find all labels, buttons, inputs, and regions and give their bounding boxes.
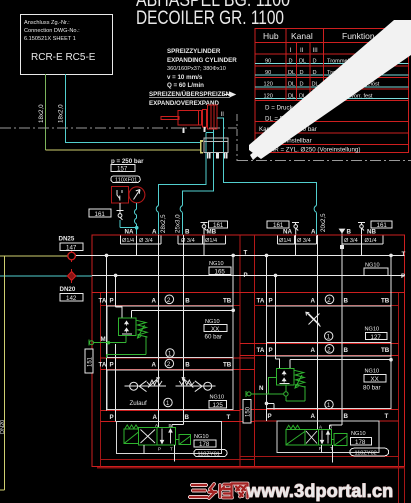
directional valve box X right-block <box>305 429 319 445</box>
box XX right <box>364 374 386 382</box>
module rect left S3 <box>107 306 233 358</box>
box 142 <box>60 294 83 302</box>
table subcolumn lines <box>297 43 311 101</box>
PART1: titles and top-left box <box>0 0 411 161</box>
plug triangle port B right <box>339 229 346 234</box>
svg-text:TB: TB <box>223 298 232 305</box>
svg-text:Ø1/4: Ø1/4 <box>365 238 377 244</box>
red divider top of blocks <box>92 292 405 294</box>
wire cyan test point to NA junction <box>120 220 137 228</box>
directional valve solenoid right <box>179 435 191 445</box>
svg-text:B: B <box>185 298 190 305</box>
relief adjust arrow right <box>295 375 302 388</box>
svg-text:Ø 3/4: Ø 3/4 <box>139 238 153 244</box>
wire yellow supply segment to coupling <box>46 149 201 151</box>
svg-text:161: 161 <box>95 211 106 218</box>
svg-text:B: B <box>347 229 352 236</box>
svg-text:T: T <box>385 413 389 420</box>
stripe tip fragment <box>250 150 259 160</box>
check valve B ball <box>204 382 212 390</box>
svg-text:127: 127 <box>371 334 382 341</box>
svg-text:p = 250 bar: p = 250 bar <box>111 158 144 165</box>
flow control valve X <box>309 314 320 325</box>
svg-text:A: A <box>311 347 316 354</box>
svg-text:110XF01: 110XF01 <box>115 178 137 184</box>
svg-text:B: B <box>344 413 349 420</box>
red inner bottom left <box>101 459 255 461</box>
wire P left vertical lower <box>115 344 117 422</box>
svg-text:DN25: DN25 <box>59 236 75 243</box>
svg-text:Zulauf: Zulauf <box>130 400 147 407</box>
wire P tap to relief right <box>276 359 280 369</box>
directional valve spring top <box>125 425 138 429</box>
svg-text:Ø1/4: Ø1/4 <box>122 238 134 244</box>
svg-text:P: P <box>110 298 114 305</box>
svg-text:A: A <box>155 423 158 428</box>
cylinder piston line <box>198 110 200 125</box>
shutoff valve red on DN25 <box>68 252 76 260</box>
svg-text:DN20: DN20 <box>0 420 6 434</box>
module rect right S4 <box>267 356 392 409</box>
svg-text:28x2,5: 28x2,5 <box>160 214 167 233</box>
svg-text:P: P <box>269 347 273 354</box>
box empty right <box>364 268 388 276</box>
svg-text:B: B <box>185 414 190 421</box>
wire MB drain to T <box>203 235 205 255</box>
connection info box <box>21 15 113 75</box>
svg-text:157: 157 <box>117 166 128 173</box>
svg-text:110ZY01: 110ZY01 <box>198 452 220 458</box>
svg-text:B: B <box>344 347 349 354</box>
relief valve spring <box>137 320 148 337</box>
gauge needle <box>134 190 141 200</box>
red dividers left middle row <box>101 358 255 370</box>
wire T line <box>76 254 405 256</box>
node T-TA left <box>105 254 109 258</box>
relief adjust arrow <box>138 325 145 338</box>
svg-text:T: T <box>244 249 248 256</box>
white diagonal stripe artifact <box>249 20 411 159</box>
svg-text:RCR-E RC5-E: RCR-E RC5-E <box>31 52 96 63</box>
wire B left vertical <box>172 235 184 428</box>
pressure gauge circle <box>129 187 145 203</box>
svg-text:DL: DL <box>288 82 295 88</box>
check valve A spring <box>147 380 162 385</box>
wire relief drain green <box>285 385 287 392</box>
manifold outer red frame <box>92 235 405 467</box>
check valve B spring <box>179 380 194 385</box>
pressure switch square gauge <box>112 187 129 203</box>
svg-text:III: III <box>313 47 318 54</box>
relief valve body right <box>276 369 293 386</box>
svg-text:Ø1/4: Ø1/4 <box>279 238 291 244</box>
node T-TB right <box>389 254 393 258</box>
box 165 <box>209 267 231 275</box>
svg-text:P: P <box>268 413 272 420</box>
svg-text:TB: TB <box>381 298 390 305</box>
red divider right label row bottom <box>255 305 399 307</box>
svg-text:EXPANDING CYLINDER: EXPANDING CYLINDER <box>167 57 237 64</box>
svg-text:NA: NA <box>125 229 134 236</box>
svg-text:B: B <box>185 362 190 369</box>
node circled 1 left S4 <box>164 398 172 406</box>
svg-text:161: 161 <box>377 222 388 229</box>
red inner border left <box>100 293 102 467</box>
cylinder head bar <box>203 109 207 127</box>
svg-text:80 bar: 80 bar <box>363 385 381 392</box>
svg-text:A: A <box>153 414 158 421</box>
PART3: cylinder and piping <box>149 48 327 235</box>
wire NB right drain to T <box>361 235 363 255</box>
box 157 <box>111 165 135 172</box>
svg-text:20x2,5: 20x2,5 <box>320 213 327 232</box>
table outer border <box>255 29 409 153</box>
cylinder rod <box>161 116 179 119</box>
hatch pair 1 <box>208 153 210 159</box>
svg-text:NB: NB <box>367 229 376 236</box>
svg-text:DN20: DN20 <box>60 286 76 293</box>
wire T drain long <box>173 445 175 461</box>
PART6: left block internals <box>94 307 236 461</box>
node circled 1 right S3 <box>325 332 333 340</box>
wire cyan NA gauge line <box>136 203 138 235</box>
PART4: gauges and port heads <box>89 158 392 249</box>
coupling block grey <box>204 138 228 153</box>
svg-text:A: A <box>311 413 316 420</box>
port size cells left pair1 <box>121 235 162 244</box>
circled 2 right row1 <box>325 295 334 304</box>
relief valve spring right <box>294 370 305 387</box>
node B dot <box>340 245 344 249</box>
red dividers left bottom row <box>101 411 255 422</box>
svg-text:EXPAND/OVEREXPAND: EXPAND/OVEREXPAND <box>149 100 219 107</box>
table row underlines cyan <box>255 64 409 99</box>
oval 110ZY02 <box>350 448 389 456</box>
directional valve box X <box>139 428 158 446</box>
node cyan dot NA <box>135 226 139 230</box>
wire relief tank tap to TB <box>132 310 234 318</box>
check valve A seat <box>139 381 146 392</box>
wire cyan to right block <box>217 118 316 235</box>
box 161 left <box>89 209 111 217</box>
box 147 <box>60 243 83 251</box>
wire A right vertical <box>317 235 319 429</box>
wire B plug stem <box>341 234 343 247</box>
svg-text:I: I <box>290 47 292 54</box>
node TA right dot <box>265 402 269 406</box>
cylinder body <box>178 110 202 125</box>
svg-text:P: P <box>269 298 273 305</box>
svg-text:NG10: NG10 <box>210 395 225 401</box>
module rect right S5 <box>277 421 379 453</box>
box XX left <box>204 325 227 332</box>
relief valve arrows <box>125 321 129 333</box>
relief valve body left <box>119 318 136 335</box>
svg-text:90: 90 <box>265 70 271 76</box>
box 178 <box>194 440 216 447</box>
svg-text:Kanal: Kanal <box>291 31 313 41</box>
svg-text:NG10: NG10 <box>365 327 380 333</box>
box 151 vertical <box>85 349 93 373</box>
red inner bottom right <box>240 456 399 458</box>
svg-text:D: D <box>313 59 317 65</box>
svg-text:BAR = ZYL. Ø250 (Voreinstellun: BAR = ZYL. Ø250 (Voreinstellung) <box>266 146 360 153</box>
svg-text:SPREIZEN/ÜBERSPREIZEN: SPREIZEN/ÜBERSPREIZEN <box>149 91 231 98</box>
relief valve arrows right <box>282 371 286 383</box>
svg-text:A: A <box>311 229 316 236</box>
svg-text:Connection DWG-No.:: Connection DWG-No.: <box>24 28 80 34</box>
directional valve solenoid right right-block <box>334 434 347 446</box>
svg-text:MB: MB <box>207 229 217 236</box>
red dividers right middle row <box>240 344 399 356</box>
red bottom double line <box>97 467 405 469</box>
svg-text:NG10: NG10 <box>365 369 380 375</box>
wire TA right vertical <box>266 255 268 421</box>
wire TA left vertical <box>106 255 108 410</box>
svg-text:Ø1/4: Ø1/4 <box>205 238 217 244</box>
svg-text:110ZY02: 110ZY02 <box>355 451 377 457</box>
check valve A pilot arrow <box>148 377 159 387</box>
node P left <box>114 274 118 278</box>
wire TB left vertical <box>232 255 234 410</box>
svg-text:N: N <box>259 385 264 392</box>
port size cells right pair1 <box>278 235 317 244</box>
hatch pair 2 <box>217 153 219 159</box>
wire NA right drain to T <box>295 235 297 255</box>
oval 110XF01 <box>111 176 141 183</box>
svg-text:TB: TB <box>223 362 232 369</box>
table column lines <box>286 29 324 101</box>
box 178 right <box>350 438 371 446</box>
test point MB <box>201 223 208 225</box>
svg-text:TB: TB <box>381 347 390 354</box>
svg-text:147: 147 <box>66 245 77 252</box>
red right border extension <box>404 467 406 503</box>
cylinder head block <box>208 105 217 129</box>
red gap border right <box>254 235 256 467</box>
check valve B seat <box>195 381 202 392</box>
box 161 MB <box>209 221 228 228</box>
check valve A flow line <box>125 385 166 387</box>
svg-text:D: D <box>300 82 304 88</box>
svg-text:DL: DL <box>288 70 295 76</box>
svg-text:P: P <box>244 272 248 279</box>
wire TB right vertical <box>390 255 392 408</box>
svg-text:DL: DL <box>299 59 306 65</box>
PART5: manifold structure <box>0 235 406 503</box>
node circled 1 left S3 <box>166 349 174 357</box>
svg-text:DL: DL <box>288 93 295 99</box>
svg-text:TA: TA <box>99 298 107 305</box>
node tap TB dot <box>231 309 235 313</box>
PART2: table <box>255 29 409 154</box>
wire yellow DN25 from left <box>0 255 68 257</box>
test point right NB <box>358 223 365 225</box>
centerline dash-dot horizontal <box>0 127 237 129</box>
red inner border right <box>398 293 400 503</box>
svg-text:Hub: Hub <box>263 31 279 41</box>
node circled 1 right S4 <box>325 400 333 408</box>
tick I left <box>183 127 185 133</box>
wire green pipe from RCR-E down <box>45 74 47 150</box>
svg-text:151: 151 <box>88 356 94 367</box>
port size cells left pair2 <box>178 235 226 244</box>
svg-text:Ø 3/4: Ø 3/4 <box>297 238 311 244</box>
svg-text:B: B <box>185 229 190 236</box>
node T-TA right <box>265 254 269 258</box>
check valve B pilot arrow <box>182 377 193 387</box>
svg-text:D: D <box>313 70 317 76</box>
directional valve spring top right-block <box>287 425 300 429</box>
wire N coupling line green <box>251 393 284 395</box>
wire cyan pipe from RC5-E down <box>66 74 201 142</box>
svg-text:165: 165 <box>215 269 226 276</box>
wire cyan B from cylinder <box>182 129 213 235</box>
arrow right of SPREIZEN <box>224 92 235 96</box>
svg-text:120: 120 <box>264 82 273 88</box>
svg-text:T: T <box>402 251 406 258</box>
svg-text:178: 178 <box>355 439 366 446</box>
svg-text:360/160Px37; 380Φx10: 360/160Px37; 380Φx10 <box>167 66 226 72</box>
red divider left label row bottom <box>101 305 241 307</box>
node T-TB left <box>231 254 235 258</box>
svg-text:NG10: NG10 <box>209 261 224 267</box>
svg-text:TA: TA <box>99 362 107 369</box>
module rect left S4 <box>107 370 233 410</box>
wire spring drain green <box>106 336 146 358</box>
wire P right vertical <box>275 275 277 359</box>
svg-text:T: T <box>227 414 231 421</box>
wire TA right jog <box>267 403 275 409</box>
svg-text:6.150521X SHEET 1: 6.150521X SHEET 1 <box>24 36 76 42</box>
svg-text:18x2,0: 18x2,0 <box>38 104 45 123</box>
directional valve solenoid left <box>124 429 139 444</box>
box 127 <box>366 333 388 340</box>
cylinder head inner lines <box>211 105 214 129</box>
wire NA drain to T <box>136 244 138 255</box>
red dividers right bottom row <box>240 410 399 422</box>
coupling M <box>88 340 90 346</box>
box 161 right NB <box>371 221 392 228</box>
svg-text:90: 90 <box>265 59 271 65</box>
svg-text:II: II <box>300 47 304 54</box>
svg-text:142: 142 <box>66 295 77 302</box>
wire relief pilot X line green <box>268 377 276 394</box>
module rect right S3 <box>267 306 392 343</box>
wire T drain long right <box>332 445 334 463</box>
svg-text:B: B <box>169 423 172 428</box>
wire square gauge stem <box>119 203 121 211</box>
oval 110ZY01 <box>194 449 227 456</box>
svg-text:www.3dportal.cn: www.3dportal.cn <box>246 481 393 501</box>
coupling block inner line <box>204 141 228 143</box>
svg-text:NA: NA <box>283 229 292 236</box>
svg-text:Q = 60 L/min: Q = 60 L/min <box>167 82 204 89</box>
circled 2 left row1 <box>165 295 174 304</box>
svg-text:B: B <box>344 298 349 305</box>
svg-text:P: P <box>110 362 114 369</box>
svg-text:TA: TA <box>257 347 265 354</box>
svg-text:B: B <box>329 425 332 430</box>
centerline dash-dot right <box>237 160 411 162</box>
flow control arrow <box>306 312 321 326</box>
svg-text:A: A <box>319 425 322 430</box>
wire yellow vertical branch <box>0 256 5 490</box>
test point at square gauge <box>117 211 124 214</box>
centerline dash-dot vertical <box>236 114 238 161</box>
port size cells right pair2 <box>342 235 383 244</box>
directional valve solenoid left right-block <box>286 429 305 445</box>
red gap border left <box>239 235 241 467</box>
check diamond red on DN20 <box>67 272 75 281</box>
svg-text:P: P <box>158 447 161 452</box>
svg-text:178: 178 <box>199 441 210 448</box>
svg-text:125: 125 <box>213 402 224 409</box>
svg-text:P: P <box>110 414 114 421</box>
wire cyan A from cylinder <box>159 133 207 235</box>
module rect left S5 <box>116 422 221 454</box>
check valve B flow line <box>176 385 216 387</box>
wire cyan stub <box>206 132 214 134</box>
wire P line <box>92 274 405 276</box>
table row lines red <box>255 66 409 145</box>
svg-text:NG10: NG10 <box>351 431 366 437</box>
table header row line <box>255 43 409 55</box>
test point right NA <box>292 223 299 225</box>
svg-text:TA: TA <box>257 298 265 305</box>
svg-text:XX: XX <box>211 326 219 333</box>
node pilot TA dot <box>107 341 110 344</box>
wire P stub valve right <box>320 445 322 453</box>
circled 2 right row2 <box>325 345 334 354</box>
svg-text:NG10: NG10 <box>194 434 209 440</box>
box 161 right NA <box>267 221 289 228</box>
directional valve box parallel <box>157 428 176 446</box>
box 125 <box>209 401 227 409</box>
svg-text:150: 150 <box>246 406 252 417</box>
svg-text:60 bar: 60 bar <box>205 334 223 341</box>
wire A left vertical <box>158 235 160 428</box>
wire cyan DN20 from left <box>0 275 92 277</box>
svg-text:M: M <box>101 336 106 343</box>
wire relief pilot drain green <box>94 336 127 343</box>
svg-text:v = 10 mm/s: v = 10 mm/s <box>167 74 203 81</box>
node tap TB right dot <box>389 358 393 362</box>
svg-text:18x2,0: 18x2,0 <box>58 104 65 123</box>
svg-text:SPREIZZYLINDER: SPREIZZYLINDER <box>167 48 221 55</box>
svg-text:Ø 3/4: Ø 3/4 <box>344 238 358 244</box>
circled 2 left row2 <box>165 359 174 368</box>
svg-text:A: A <box>152 229 157 236</box>
svg-text:A: A <box>152 298 157 305</box>
svg-text:P: P <box>401 273 405 280</box>
svg-text:Funktion: Funktion <box>342 31 375 41</box>
watermark <box>190 481 393 501</box>
svg-text:120: 120 <box>264 93 273 99</box>
coupling N <box>245 391 247 397</box>
svg-text:D: D <box>300 70 304 76</box>
node junction circle green <box>284 392 288 396</box>
wire relief tank tap to TB right <box>290 360 391 369</box>
svg-text:25x3,0: 25x3,0 <box>175 214 182 233</box>
wire P tap to relief valve <box>116 307 123 318</box>
svg-text:A: A <box>311 298 316 305</box>
check valve A ball <box>130 382 138 390</box>
svg-text:D: D <box>289 59 293 65</box>
svg-text:XX: XX <box>371 376 379 383</box>
tick I right <box>203 127 205 132</box>
wire P left vertical upper <box>115 275 117 307</box>
